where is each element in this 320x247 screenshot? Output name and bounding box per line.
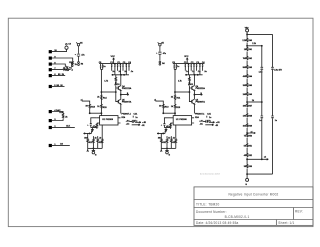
resistor R14 [101, 95, 102, 105]
wire tap2 y102 [247, 102, 263, 103]
svg-text:2k: 2k [75, 64, 77, 66]
capacitor C1 [111, 64, 112, 71]
wire pin6 [52, 85, 65, 87]
wire pin9 [52, 126, 75, 128]
svg-text:130: 130 [243, 115, 246, 117]
svg-text:75: 75 [244, 135, 246, 137]
resistor R42 [246, 56, 247, 60]
svg-text:TBM20: TBM20 [208, 202, 219, 206]
svg-text:+: + [75, 54, 77, 56]
capacitor C20 47u [158, 52, 161, 60]
svg-text:1u: 1u [135, 117, 137, 119]
resistor R40 [246, 38, 247, 42]
svg-text:750: 750 [243, 58, 246, 60]
resistor R20 (pin2 load) [71, 61, 73, 66]
capacitor C3 [117, 64, 118, 71]
svg-text:G: G [245, 184, 247, 186]
svg-text:R42: R42 [249, 58, 252, 60]
svg-text:PN2907A: PN2907A [122, 100, 132, 103]
svg-text:4/26/2013 08:49:55a: 4/26/2013 08:49:55a [206, 221, 239, 225]
svg-text:VCC: VCC [111, 56, 116, 58]
wire v2 [271, 34, 274, 174]
svg-text:R48: R48 [249, 115, 252, 117]
svg-text:430: 430 [243, 76, 246, 78]
U1 pins [97, 118, 121, 123]
svg-text:C4: C4 [128, 62, 131, 64]
svg-text:R44: R44 [249, 76, 252, 78]
connector J1 pin 5 pad [49, 74, 52, 77]
svg-text:Date:: Date: [196, 221, 205, 225]
connector J1 pin 3 pad [49, 63, 52, 66]
wire tap3 y133 arrow [247, 133, 256, 134]
svg-text:1k: 1k [244, 49, 246, 51]
connector J1 pin 6 pad [49, 85, 52, 88]
node A2 [159, 61, 161, 65]
svg-text:180: 180 [243, 105, 246, 107]
resistor R9 [93, 139, 95, 149]
svg-text:C9: C9 [68, 44, 70, 46]
ladder labels [242, 40, 282, 186]
svg-text:PN2907-1: PN2907-1 [122, 114, 132, 116]
svg-text:56: 56 [244, 145, 246, 147]
resistor R49 [246, 124, 247, 128]
chain wire [246, 32, 248, 178]
capacitor C12 polar [130, 120, 135, 123]
wire tap1 y45.8 [247, 45, 263, 46]
capacitor C4 [120, 64, 121, 75]
ground arrow A [92, 130, 94, 132]
svg-text:.1u: .1u [112, 71, 115, 73]
svg-text:1u: 1u [259, 120, 261, 122]
svg-text:R53: R53 [249, 166, 252, 168]
svg-text:2k: 2k [99, 137, 101, 139]
amplifier block B (second channel, Q6/Q7, U3) [154, 56, 220, 156]
wire bias line [101, 91, 115, 93]
svg-text:CLK: CLK [66, 125, 71, 127]
svg-text:39: 39 [86, 106, 89, 108]
connector J1 pin 4 pad [49, 68, 52, 71]
svg-text:330: 330 [243, 85, 246, 87]
svg-text:1u: 1u [275, 120, 277, 122]
terminal/cap column block2: connector circle [158, 42, 162, 51]
svg-text:R24: R24 [122, 117, 127, 119]
svg-text:.1u: .1u [124, 71, 127, 73]
connector J1 pin 1 pad [49, 50, 52, 53]
wire drops to R row [88, 125, 103, 139]
connector J1 pin 10 pad [49, 144, 52, 147]
svg-text:C21: C21 [134, 114, 139, 116]
svg-text:R40: R40 [249, 40, 252, 42]
svg-text:560: 560 [243, 67, 246, 69]
wire to arrow [91, 128, 97, 130]
connector J2 (right input) [246, 29, 249, 37]
wire pin2 [52, 58, 73, 61]
wire out JR- [132, 124, 140, 125]
svg-text:REV:: REV: [295, 209, 303, 213]
svg-text:R4: R4 [162, 63, 164, 65]
svg-text:Sheet:: Sheet: [278, 221, 288, 225]
resistor R47 [246, 103, 247, 107]
resistor R50 [246, 133, 247, 137]
svg-text:240: 240 [243, 94, 246, 96]
svg-text:VR2: VR2 [245, 27, 249, 29]
svg-text:+AC: +AC [126, 119, 131, 122]
capacitor C9b [102, 64, 103, 70]
wire bottom return [247, 174, 273, 175]
svg-text:R3: R3 [81, 63, 83, 65]
svg-text:A: A [72, 68, 74, 71]
svg-text:Negative Input Converter M002: Negative Input Converter M002 [228, 192, 278, 196]
svg-text:1k: 1k [97, 106, 99, 108]
svg-text:100: 100 [243, 126, 246, 128]
svg-text:R50: R50 [249, 135, 252, 137]
capacitor C11 [132, 116, 134, 118]
wire top branch [247, 34, 273, 35]
svg-text:J4: J4 [80, 42, 82, 44]
resistor R2 (pin4 series) [63, 69, 68, 70]
svg-text:1/1: 1/1 [290, 221, 295, 225]
junction dots [112, 74, 113, 75]
wire pin4 [52, 69, 71, 71]
svg-text:R13: R13 [91, 106, 96, 108]
svg-text:2k: 2k [97, 97, 99, 99]
svg-text:-JR: -JR [141, 125, 145, 127]
resistor R15 [101, 104, 103, 115]
capacitor C5 [122, 64, 123, 71]
svg-text:+: + [87, 124, 89, 126]
capacitor C32 [261, 116, 264, 118]
ground symbol [92, 148, 95, 150]
resistor R17 [96, 123, 98, 129]
svg-text:R31: R31 [89, 142, 94, 144]
connector J1 pin 8 pad [49, 119, 52, 122]
wire input feed [82, 101, 90, 104]
transistor Q1 [117, 86, 119, 89]
svg-text:G: G [95, 154, 97, 156]
resistor R8 [87, 139, 89, 149]
wire Q2 collector [120, 95, 122, 100]
testpoint TP1 [65, 44, 68, 50]
svg-text:B-CB-M002-0-1: B-CB-M002-0-1 [225, 215, 250, 219]
svg-text:.1u: .1u [130, 71, 133, 73]
svg-text:R49: R49 [249, 126, 252, 128]
svg-text:D1: D1 [117, 84, 120, 86]
capacitor C13 47u [90, 118, 97, 128]
pin labels [54, 50, 70, 146]
connector J1 pin 9 pad [49, 126, 52, 129]
resistor R41 [246, 47, 247, 51]
resistor R51 [246, 143, 247, 147]
capacitor C7 [128, 64, 129, 71]
connector J1 pin 2 pad [49, 57, 52, 60]
resistor R21 (pin3 net) [67, 67, 69, 71]
svg-text:R15: R15 [103, 107, 108, 109]
power VCC symbol [113, 59, 115, 63]
svg-text:1k: 1k [95, 137, 97, 139]
capacitor C6 [126, 64, 127, 75]
wire pin7 [52, 112, 63, 114]
svg-text:J5: J5 [162, 42, 164, 44]
right ladder chain resistors [246, 32, 247, 178]
wire lower bus [113, 74, 130, 76]
resistor R53 [246, 164, 247, 168]
svg-text:1k: 1k [63, 67, 65, 69]
capacitor C33 [271, 116, 274, 118]
capacitor C30 [261, 67, 264, 69]
capacitor C8 [100, 64, 101, 70]
resistor R44 [246, 74, 247, 78]
svg-text:bcm electronics 2013: bcm electronics 2013 [200, 173, 220, 176]
wire base chain [116, 85, 119, 101]
svg-text:1u: 1u [103, 66, 105, 68]
connector J3 (bottom) [246, 178, 249, 181]
wire tap4 y159.3 arrow [247, 159, 269, 160]
svg-text:2k: 2k [65, 117, 67, 119]
svg-text:+: + [156, 52, 158, 54]
wire pin8 [52, 119, 63, 121]
wire Q1 emitter to node B [121, 90, 129, 95]
svg-text:R52: R52 [249, 155, 252, 157]
wire ground bus [88, 147, 103, 149]
net arrow left [87, 148, 89, 151]
capacitor C10 47u [77, 54, 80, 61]
resistor R13 [89, 104, 91, 114]
svg-text:R14: R14 [103, 98, 108, 100]
svg-text:.1u: .1u [118, 71, 121, 73]
wire pin5 [52, 75, 65, 77]
resistor R45 [246, 83, 247, 87]
diode D1 zener [115, 83, 117, 86]
svg-text:o2: o2 [264, 157, 266, 159]
resistor R43 [246, 65, 247, 69]
wire lower link [83, 131, 91, 134]
svg-text:47u: 47u [134, 120, 137, 122]
resistor R52 [246, 153, 247, 157]
wire Q2 emitter down [120, 104, 122, 114]
svg-text:2.2k: 2.2k [242, 40, 246, 42]
resistor R16 2k (DAC series) [62, 113, 63, 118]
svg-text:-AC: -AC [126, 123, 130, 126]
resistor R46 [246, 92, 247, 96]
wire pin10 [52, 144, 70, 146]
svg-text:1.7k: 1.7k [104, 80, 108, 82]
wire out JR+ [135, 122, 141, 123]
svg-text:R46: R46 [249, 94, 252, 96]
svg-text:2.2k: 2.2k [252, 43, 256, 45]
capacitor C2 [114, 64, 115, 75]
svg-text:47u: 47u [93, 126, 96, 128]
svg-text:Document Number:: Document Number: [196, 210, 227, 214]
title block [194, 187, 314, 226]
wire v1 [261, 46, 264, 160]
svg-text:47u: 47u [163, 53, 166, 55]
svg-text:R51: R51 [249, 145, 252, 147]
node A1 [78, 62, 80, 66]
svg-text:R45: R45 [249, 85, 252, 87]
wire bias row [90, 112, 102, 114]
svg-text:a1: a1 [81, 99, 83, 101]
amplifier block A [81, 56, 147, 156]
wire left drop [101, 69, 103, 94]
transistor Q2 [117, 100, 119, 103]
svg-text:R47: R47 [249, 105, 252, 107]
svg-text:PN2222A: PN2222A [122, 87, 132, 90]
svg-text:R41: R41 [249, 49, 252, 51]
svg-text:47u: 47u [81, 55, 84, 57]
connector J1 pin 7 pad [49, 110, 52, 113]
resistor R11 [101, 139, 103, 149]
wire pin3 [52, 64, 67, 66]
wire pin1 to TP1 [52, 49, 67, 52]
svg-text:TITLE:: TITLE: [196, 202, 207, 206]
resistor R10 [97, 139, 99, 149]
IC U1 box [100, 116, 118, 125]
wire Q1 collector [120, 75, 122, 86]
resistor R48 [246, 113, 247, 117]
capacitor C31 [271, 67, 274, 69]
resistor R5 1.7k [115, 75, 117, 83]
terminal/cap column block1: connector circle [76, 42, 80, 53]
svg-text:39: 39 [244, 166, 246, 168]
svg-text:PN2906: PN2906 [106, 119, 114, 121]
svg-text:43: 43 [244, 155, 246, 157]
svg-text:R43: R43 [249, 67, 252, 69]
svg-text:4.6u 15V: 4.6u 15V [274, 70, 282, 72]
wire VCC rail [99, 63, 131, 65]
